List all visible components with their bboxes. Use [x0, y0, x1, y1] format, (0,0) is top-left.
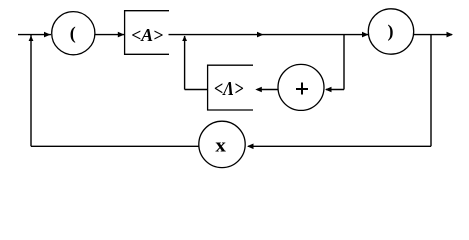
svg-text:<A>: <A>: [131, 25, 163, 45]
arrow right into circle(: [44, 32, 51, 38]
wire loop-return vertical x=185: [184, 36, 186, 90]
svg-text:): ): [388, 21, 394, 42]
arrow left into boxL: [255, 87, 261, 93]
arrow left into circle+: [325, 87, 332, 93]
arrow right into circle): [362, 32, 369, 38]
svg-text:<Λ>: <Λ>: [214, 78, 244, 100]
terminal circle (: [52, 12, 95, 55]
svg-text:x: x: [215, 135, 226, 156]
svg-text:(: (: [70, 23, 76, 44]
wire circle( to boxA: [95, 34, 125, 36]
arrow left into circlex: [247, 144, 254, 150]
box A (open right): [125, 11, 169, 55]
label + as rects: [296, 83, 308, 95]
arrow up into main line at x=31: [29, 36, 34, 41]
wire boxA to circle): [169, 34, 369, 36]
wire bottom feedback line right of X: [248, 145, 431, 147]
wire bottom feedback line left of X: [31, 145, 199, 147]
wire circle) to output: [413, 34, 452, 36]
terminal circle +: [278, 64, 324, 110]
wire left feedback vertical: [30, 35, 32, 147]
terminal circle x: [199, 121, 245, 167]
arrow right mid main line: [257, 32, 264, 38]
wire right down vertical: [430, 35, 432, 147]
box Lambda (open right): [208, 65, 253, 110]
arrow right into boxA: [118, 32, 125, 38]
arrow right output end: [447, 32, 454, 38]
wire row2 right horizontal: [326, 89, 344, 91]
terminal circle ): [368, 9, 413, 54]
arrow up into main line at x=185: [182, 36, 187, 41]
wire main-line start stub: [18, 34, 51, 36]
wire plus-circle to boxL: [257, 89, 278, 91]
wire row2 left horizontal: [185, 89, 208, 91]
wire loop-entry vertical x=344: [343, 35, 345, 90]
